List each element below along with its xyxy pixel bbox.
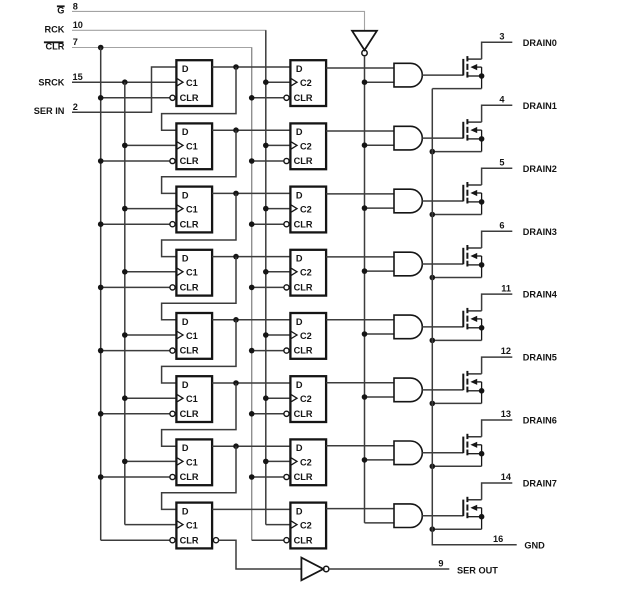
svg-text:DRAIN5: DRAIN5 <box>523 353 557 363</box>
svg-text:CLR: CLR <box>180 219 199 229</box>
wire: drain riser to DRAIN5 pin line <box>482 357 513 374</box>
wire: stage 7 Q to storage-rank D <box>212 445 290 447</box>
wire: SRCK stub to stage 8 C1 <box>125 524 177 526</box>
wire: RCK stub to storage stage 6 C2 <box>266 397 291 399</box>
svg-text:SER OUT: SER OUT <box>457 566 498 576</box>
svg-text:C1: C1 <box>186 394 198 404</box>
wire: inverted-G stub to AND gate row 2 <box>365 144 395 146</box>
inverter U3: SER OUT buffer (triangle + bubble) <box>301 558 323 581</box>
svg-text:SRCK: SRCK <box>38 77 64 87</box>
wire: stage 1 Q to storage-rank D <box>212 66 290 68</box>
wire: inverted-G stub to AND gate row 8 <box>365 522 395 524</box>
svg-text:D: D <box>182 190 189 200</box>
svg-text:C2: C2 <box>300 268 312 278</box>
wire: storage stage 8 Q to AND gate <box>326 508 394 510</box>
wire: storage stage 4 Q to AND gate <box>326 256 394 258</box>
svg-text:C1: C1 <box>186 521 198 531</box>
svg-text:10: 10 <box>73 20 83 30</box>
wire: inverted-G stub to AND gate row 1 <box>365 81 395 83</box>
svg-text:D: D <box>296 380 303 390</box>
wire: stage 1 Q down to stage 2 D (junction + zigzag) <box>233 64 239 70</box>
svg-text:16: 16 <box>493 534 503 544</box>
wire: RCK stub to storage stage 3 C2 <box>266 208 291 210</box>
wire: inverted-G stub to AND gate row 4 <box>365 270 395 272</box>
svg-text:C1: C1 <box>186 268 198 278</box>
svg-text:D: D <box>296 506 303 516</box>
flip-flop: storage-register stage 5 (D/C2/CLR) <box>290 313 326 359</box>
svg-text:CLR: CLR <box>180 93 199 103</box>
wire: inverted-G stub to AND gate row 7 <box>365 459 395 461</box>
wire: stage 8 Q-bar to SER OUT buffer <box>219 540 302 569</box>
svg-text:D: D <box>296 127 303 137</box>
flip-flop: storage-register stage 3 (D/C2/CLR) <box>290 187 326 233</box>
wire: AND output to MOSFET gate row 1 <box>422 74 463 76</box>
svg-text:C1: C1 <box>186 78 198 88</box>
wire: CLR-bar stub to stage 4 (1st rank) <box>101 286 170 288</box>
wire: stage 4 Q to storage-rank D <box>212 256 290 258</box>
wire: CLR-bar stub to storage stage 7 <box>252 476 284 478</box>
wire: SER OUT pin line <box>329 568 449 570</box>
svg-text:CLR: CLR <box>294 156 313 166</box>
svg-text:D: D <box>182 127 189 137</box>
wire: CLR-bar stub to storage stage 1 <box>252 97 284 99</box>
wire: MOSFET 5 source to common-source rail <box>432 402 481 404</box>
wire: SRCK pin line into stage-1 C1 <box>72 81 176 83</box>
svg-text:DRAIN1: DRAIN1 <box>523 101 557 111</box>
transistor Q2 (power DMOS, open-drain output) <box>462 185 464 202</box>
svg-text:C2: C2 <box>300 521 312 531</box>
svg-text:4: 4 <box>499 95 505 105</box>
AND gate row 4 (output enable gating) <box>394 252 422 276</box>
svg-text:D: D <box>182 443 189 453</box>
svg-text:CLR: CLR <box>294 346 313 356</box>
svg-text:CLR: CLR <box>294 93 313 103</box>
inverter U2 (G-bar buffer, triangle + bubble) <box>352 31 377 50</box>
svg-text:D: D <box>182 254 189 264</box>
flip-flop: storage-register stage 1 (D/C2/CLR) <box>290 60 326 106</box>
wire: CLR-bar stub to stage 3 (1st rank) <box>101 223 170 225</box>
svg-text:12: 12 <box>501 346 511 356</box>
wire: RCK stub to storage stage 5 C2 <box>266 334 291 336</box>
wire: AND output to MOSFET gate row 2 <box>422 137 463 139</box>
AND gate row 7 (output enable gating) <box>394 441 422 465</box>
svg-text:13: 13 <box>501 409 511 419</box>
wire: inverted-G stub to AND gate row 5 <box>365 333 395 335</box>
svg-text:C2: C2 <box>300 141 312 151</box>
wire: AND output to MOSFET gate row 8 <box>422 515 463 517</box>
AND gate row 3 (output enable gating) <box>394 189 422 213</box>
wire: storage stage 1 Q to AND gate <box>326 67 394 69</box>
svg-text:CLR: CLR <box>294 472 313 482</box>
wire: CLR-bar stub to stage 2 (1st rank) <box>101 160 170 162</box>
flip-flop: storage-register stage 2 (D/C2/CLR) <box>290 123 326 169</box>
wire: inverted-G vertical rail <box>364 56 366 523</box>
svg-text:DRAIN7: DRAIN7 <box>523 479 557 489</box>
svg-text:CLR: CLR <box>294 283 313 293</box>
svg-text:CLR: CLR <box>180 409 199 419</box>
wire: CLR-bar stub to stage 5 (1st rank) <box>101 350 170 352</box>
svg-text:8: 8 <box>73 2 78 12</box>
AND gate row 6 (output enable gating) <box>394 378 422 402</box>
wire: AND output to MOSFET gate row 7 <box>422 452 463 454</box>
wire: storage stage 3 Q to AND gate <box>326 193 394 195</box>
wire: stage 8 Q to storage-rank D <box>212 508 290 510</box>
transistor Q3 (power DMOS, open-drain output) <box>462 248 464 264</box>
wire: CLR-bar stub to storage stage 3 <box>252 223 284 225</box>
svg-text:C1: C1 <box>186 331 198 341</box>
flip-flop: shift-register stage 7 (D/C1/CLR) <box>176 439 212 485</box>
flip-flop: storage-register stage 6 (D/C2/CLR) <box>290 376 326 422</box>
svg-text:14: 14 <box>501 472 512 482</box>
wire: inverted-G stub to AND gate row 6 <box>365 396 395 398</box>
svg-text:11: 11 <box>501 283 511 293</box>
wire: CLR-bar stub to stage 7 (1st rank) <box>101 476 170 478</box>
wire: MOSFET 6 source to common-source rail <box>432 465 481 467</box>
wire: RCK stub to storage stage 8 C2 <box>266 524 291 526</box>
wire: AND output to MOSFET gate row 5 <box>422 326 463 328</box>
wire: SRCK stub to stage 3 C1 <box>125 208 177 210</box>
wire: RCK pin line + RCK rail <box>72 30 266 524</box>
wire: stage 7 Q down to stage 8 D (junction + zigzag) <box>233 443 239 449</box>
wire: AND output to MOSFET gate row 3 <box>422 200 463 202</box>
transistor Q7 (power DMOS, open-drain output) <box>462 500 464 516</box>
wire: drain riser to DRAIN4 pin line <box>482 294 513 311</box>
wire: drain riser to DRAIN7 pin line <box>482 483 513 500</box>
AND gate row 8 (output enable gating) <box>394 504 422 528</box>
svg-text:DRAIN2: DRAIN2 <box>523 164 557 174</box>
wire: inverted-G stub to AND gate row 3 <box>365 207 395 209</box>
flip-flop: storage-register stage 4 (D/C2/CLR) <box>290 250 326 296</box>
wire: CLR-bar stub to storage stage 4 <box>252 286 284 288</box>
wire: stage 2 Q to storage-rank D <box>212 129 290 131</box>
wire: CLR-bar pin line + 2nd-column CLR rail <box>72 48 252 541</box>
svg-text:15: 15 <box>73 72 83 82</box>
transistor Q4 (power DMOS, open-drain output) <box>462 311 464 328</box>
wire: drain riser to DRAIN3 pin line <box>482 231 513 248</box>
svg-text:C2: C2 <box>300 394 312 404</box>
svg-text:2: 2 <box>73 102 78 112</box>
flip-flop: shift-register stage 1 (D/C1/CLR) <box>176 60 212 106</box>
svg-text:5: 5 <box>499 157 504 167</box>
wire: MOSFET 2 source to common-source rail <box>432 214 481 216</box>
wire: drain riser to DRAIN6 pin line <box>482 420 513 437</box>
svg-text:DRAIN0: DRAIN0 <box>523 38 557 48</box>
wire: MOSFET 7 source to common-source rail <box>432 528 481 530</box>
svg-text:C2: C2 <box>300 205 312 215</box>
svg-text:D: D <box>182 506 189 516</box>
wire: CLR-bar stub to storage stage 8 <box>252 539 284 541</box>
wire: storage stage 5 Q to AND gate <box>326 319 394 321</box>
transistor Q5 (power DMOS, open-drain output) <box>462 374 464 391</box>
svg-text:D: D <box>296 190 303 200</box>
svg-text:DRAIN6: DRAIN6 <box>523 416 557 426</box>
wire: stage 5 Q to storage-rank D <box>212 319 290 321</box>
svg-text:CLR: CLR <box>180 283 199 293</box>
wire: stage 3 Q down to stage 4 D (junction + zigzag) <box>233 191 239 197</box>
flip-flop: shift-register stage 6 (D/C1/CLR) <box>176 376 212 422</box>
wire: CLR-bar stub to storage stage 2 <box>252 160 284 162</box>
wire: storage stage 6 Q to AND gate <box>326 382 394 384</box>
flip-flop: shift-register stage 4 (D/C1/CLR) <box>176 250 212 296</box>
transistor Q1 (power DMOS, open-drain output) <box>462 122 464 139</box>
svg-text:D: D <box>296 317 303 327</box>
junction + wire: SRCK vertical rail <box>122 79 128 85</box>
svg-text:C2: C2 <box>300 457 312 467</box>
wire: stage 6 Q to storage-rank D <box>212 382 290 384</box>
svg-text:6: 6 <box>499 220 504 230</box>
svg-text:CLR: CLR <box>294 219 313 229</box>
wire: CLR-bar stub to stage 8 (1st rank) <box>101 539 170 541</box>
svg-text:C1: C1 <box>186 205 198 215</box>
svg-text:GND: GND <box>524 540 545 550</box>
transistor Q0 (power DMOS, open-drain output) <box>462 59 464 76</box>
transistor Q6 (power DMOS, open-drain output) <box>462 437 464 454</box>
svg-text:C1: C1 <box>186 141 198 151</box>
flip-flop: storage-register stage 7 (D/C2/CLR) <box>290 439 326 485</box>
wire: storage stage 7 Q to AND gate <box>326 445 394 447</box>
wire: RCK stub to storage stage 1 C2 <box>266 81 291 83</box>
flip-flop: shift-register stage 2 (D/C1/CLR) <box>176 123 212 169</box>
wire: SRCK stub to stage 7 C1 <box>125 460 177 462</box>
wire: drain riser to DRAIN1 pin line <box>482 105 513 122</box>
flip-flop: shift-register stage 3 (D/C1/CLR) <box>176 187 212 233</box>
svg-text:C1: C1 <box>186 457 198 467</box>
svg-text:7: 7 <box>73 37 78 47</box>
wire: SRCK stub to stage 4 C1 <box>125 271 177 273</box>
flip-flop: shift-register stage 5 (D/C1/CLR) <box>176 313 212 359</box>
wire: MOSFET 0 source to common-source rail <box>432 88 481 90</box>
svg-text:D: D <box>296 64 303 74</box>
svg-text:CLR: CLR <box>180 346 199 356</box>
wire: G-bar pin line to inverter <box>72 11 365 30</box>
svg-text:CLR: CLR <box>180 535 199 545</box>
svg-text:D: D <box>182 317 189 327</box>
wire: AND output to MOSFET gate row 6 <box>422 389 463 391</box>
wire: MOSFET 3 source to common-source rail <box>432 277 481 279</box>
svg-text:RCK: RCK <box>44 24 64 34</box>
wire: stage 2 Q down to stage 3 D (junction + zigzag) <box>233 127 239 133</box>
svg-text:3: 3 <box>499 32 504 42</box>
svg-text:DRAIN4: DRAIN4 <box>523 290 558 300</box>
svg-text:C2: C2 <box>300 78 312 88</box>
wire: RCK stub to storage stage 2 C2 <box>266 144 291 146</box>
wire: RCK stub to storage stage 4 C2 <box>266 271 291 273</box>
wire: storage stage 2 Q to AND gate <box>326 130 394 132</box>
wire: stage 4 Q down to stage 5 D (junction + zigzag) <box>233 254 239 260</box>
junction + wire: 1st-column CLR rail <box>98 45 104 51</box>
wire: CLR-bar stub to stage 6 (1st rank) <box>101 413 170 415</box>
AND gate row 2 (output enable gating) <box>394 126 422 150</box>
wire: CLR-bar stub to storage stage 5 <box>252 350 284 352</box>
wire: stage 5 Q down to stage 6 D (junction + zigzag) <box>233 317 239 323</box>
AND gate row 1 (output enable gating) <box>394 63 422 87</box>
flip-flop: storage-register stage 8 (D/C2/CLR) <box>290 503 326 549</box>
svg-text:9: 9 <box>438 559 443 569</box>
svg-text:D: D <box>182 64 189 74</box>
wire: SRCK stub to stage 2 C1 <box>125 144 177 146</box>
svg-text:D: D <box>182 380 189 390</box>
svg-text:D: D <box>296 443 303 453</box>
wire: common-source rail down to GND pin <box>432 89 516 545</box>
wire: SER IN to D of stage 1 <box>72 67 176 112</box>
svg-text:CLR: CLR <box>294 535 313 545</box>
svg-text:D: D <box>296 254 303 264</box>
svg-text:SER IN: SER IN <box>34 106 65 116</box>
wire: stage 6 Q down to stage 7 D (junction + zigzag) <box>233 380 239 386</box>
wire: MOSFET 1 source to common-source rail <box>432 151 481 153</box>
AND gate row 5 (output enable gating) <box>394 315 422 339</box>
flip-flop: shift-register stage 8 (D/C1/CLR) <box>176 503 212 549</box>
wire: CLR-bar stub to storage stage 6 <box>252 413 284 415</box>
svg-text:CLR: CLR <box>294 409 313 419</box>
wire: AND output to MOSFET gate row 4 <box>422 263 463 265</box>
wire: drain riser to DRAIN2 pin line <box>482 168 513 185</box>
svg-text:CLR: CLR <box>180 472 199 482</box>
wire: SRCK stub to stage 6 C1 <box>125 397 177 399</box>
svg-text:C2: C2 <box>300 331 312 341</box>
wire: MOSFET 4 source to common-source rail <box>432 339 481 341</box>
wire: drain riser to DRAIN0 pin line <box>482 42 513 59</box>
wire: SRCK stub to stage 5 C1 <box>125 334 177 336</box>
svg-text:DRAIN3: DRAIN3 <box>523 227 557 237</box>
svg-text:CLR: CLR <box>180 156 199 166</box>
wire: RCK stub to storage stage 7 C2 <box>266 460 291 462</box>
wire: stage 3 Q to storage-rank D <box>212 192 290 194</box>
wire: CLR-bar stub to stage 1 (1st rank) <box>101 97 170 99</box>
